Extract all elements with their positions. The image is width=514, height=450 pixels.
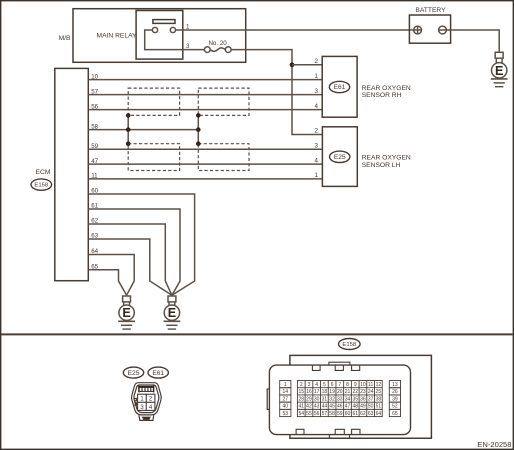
svg-text:33: 33 [337,396,343,402]
shield (upper right dashed) [198,88,249,115]
svg-text:E158: E158 [342,342,356,348]
ground battery [491,52,508,86]
svg-text:ECM: ECM [36,169,51,176]
svg-text:34: 34 [345,396,351,402]
svg-text:E: E [168,306,176,320]
svg-text:SENSOR LH: SENSOR LH [362,162,401,169]
connector label E61 (bottom view) [148,367,168,378]
rear oxygen sensor RH box [322,56,357,117]
shield (lower right dashed) [198,144,249,171]
junction dot at E61 pin2 branch [290,62,295,67]
fuse F20 symbol [204,47,231,53]
wire fuse to node [183,49,205,51]
ground right E [164,296,181,329]
svg-text:28: 28 [298,396,304,402]
svg-text:60: 60 [91,188,98,195]
svg-text:27: 27 [283,396,289,402]
svg-text:61: 61 [352,411,358,417]
svg-text:2: 2 [315,128,319,135]
E158 pin grid [280,381,401,417]
wire ECM pin 59 [88,148,322,150]
svg-text:14: 14 [283,389,289,395]
wire ECM pin 64 to ground [88,255,134,296]
svg-text:59: 59 [337,411,343,417]
svg-text:53: 53 [283,411,289,417]
svg-text:51: 51 [376,404,382,410]
wire ECM pin 11 [88,178,322,180]
svg-text:60: 60 [345,411,351,417]
svg-text:63: 63 [91,233,98,240]
svg-text:24: 24 [368,389,374,395]
svg-text:BATTERY: BATTERY [415,7,446,14]
connector label E158 (bottom view) [339,339,361,350]
svg-text:9: 9 [354,382,357,388]
shield (upper left dashed) [128,88,179,115]
svg-text:64: 64 [91,248,98,255]
svg-text:57: 57 [91,88,98,95]
connector top latch hatching [139,386,154,393]
shield drain wire x=198.3 [197,115,199,143]
E158 left notch [267,389,271,409]
relay internal wire to pin 3 [145,30,183,50]
svg-text:10: 10 [91,73,98,80]
svg-text:E: E [122,306,130,320]
battery - terminal [439,26,447,34]
svg-text:7: 7 [338,382,341,388]
svg-text:46: 46 [337,404,343,410]
wire ECM pin 61 to ground [88,209,180,295]
wire ECM pin 10 [88,79,322,81]
svg-text:32: 32 [329,396,335,402]
svg-text:20: 20 [337,389,343,395]
wire ECM pin 47 [88,163,322,165]
battery box [409,15,450,43]
svg-text:25: 25 [376,389,382,395]
svg-text:13: 13 [392,382,398,388]
svg-text:45: 45 [329,404,335,410]
connector E61 oval [329,81,349,92]
E158 connector body [269,365,410,435]
svg-text:4: 4 [315,382,318,388]
ECM box [55,68,89,280]
svg-text:50: 50 [368,404,374,410]
svg-text:8: 8 [346,382,349,388]
svg-text:17: 17 [314,389,320,395]
svg-text:35: 35 [352,396,358,402]
svg-text:11: 11 [91,173,98,180]
svg-text:31: 31 [322,396,328,402]
connector E25 oval [330,151,350,162]
svg-text:30: 30 [314,396,320,402]
E158 rear housing [290,355,432,438]
svg-text:4: 4 [315,103,319,110]
svg-text:52: 52 [392,404,398,410]
svg-text:16: 16 [306,389,312,395]
E158 bottom latch bracket [329,435,349,439]
svg-text:63: 63 [368,411,374,417]
ground left E [118,296,135,329]
svg-text:E: E [495,64,503,78]
main relay K1 box [136,11,183,60]
E158 top keying tabs [296,365,360,438]
svg-text:41: 41 [298,404,304,410]
svg-text:18: 18 [322,389,328,395]
svg-text:3: 3 [308,382,311,388]
E158 bottom keying tabs [296,429,304,434]
svg-text:62: 62 [91,218,98,225]
wire ECM pin 65 to ground [88,270,126,295]
svg-text:59: 59 [91,143,98,150]
shield junction dots [196,113,201,118]
svg-text:29: 29 [306,396,312,402]
svg-text:42: 42 [306,404,312,410]
svg-text:43: 43 [314,404,320,410]
svg-text:56: 56 [91,103,98,110]
oxygen sensor 4-pin connector face view [132,383,162,421]
svg-text:MAIN RELAY: MAIN RELAY [97,33,138,40]
svg-text:65: 65 [392,411,398,417]
svg-text:5: 5 [323,382,326,388]
battery + terminal [414,26,422,34]
svg-text:58: 58 [91,123,98,130]
wire fuse output, down to sensors [231,50,322,135]
svg-text:65: 65 [91,264,98,271]
relay contact left [152,27,157,32]
svg-text:22: 22 [352,389,358,395]
svg-text:E61: E61 [334,84,346,91]
E158 top latch bump [329,362,350,365]
svg-text:EN-20258: EN-20258 [477,440,511,449]
wire ECM pin 57 [88,94,322,96]
svg-text:12: 12 [376,382,382,388]
svg-text:26: 26 [392,389,398,395]
svg-text:54: 54 [298,411,304,417]
relay coil [153,20,175,24]
svg-text:57: 57 [322,411,328,417]
svg-text:1: 1 [284,382,287,388]
svg-text:55: 55 [306,411,312,417]
svg-text:47: 47 [345,404,351,410]
shield drain wire x=128.2 [127,115,129,143]
svg-text:61: 61 [91,203,98,210]
M/B box [73,9,246,63]
svg-text:SENSOR RH: SENSOR RH [362,92,402,99]
svg-text:REAR OXYGEN: REAR OXYGEN [362,85,411,92]
svg-text:REAR OXYGEN: REAR OXYGEN [362,155,411,162]
E158 pin numbers [283,382,398,417]
wire ECM pin 58 [88,129,198,131]
svg-text:E61: E61 [152,370,164,377]
svg-text:3: 3 [315,88,319,95]
ECM connector E158 oval label [31,179,52,190]
svg-text:E25: E25 [128,370,140,377]
svg-text:11: 11 [368,382,373,388]
svg-text:2: 2 [315,58,319,65]
svg-text:36: 36 [360,396,366,402]
svg-text:E158: E158 [34,183,48,189]
svg-text:4: 4 [315,157,319,164]
svg-text:6: 6 [331,382,334,388]
svg-text:23: 23 [360,389,366,395]
svg-text:49: 49 [360,404,366,410]
connector label E25 (bottom view) [123,367,143,378]
wire ECM pin 62 to ground [88,224,172,295]
svg-text:58: 58 [329,411,335,417]
svg-text:3: 3 [315,143,319,150]
svg-text:37: 37 [368,396,374,402]
relay contact right [170,27,175,32]
svg-text:47: 47 [91,158,98,165]
svg-text:2: 2 [300,382,303,388]
wire ECM pin 56 [88,109,322,111]
svg-text:38: 38 [376,396,382,402]
svg-text:64: 64 [376,411,382,417]
svg-text:E25: E25 [334,154,346,161]
svg-text:56: 56 [314,411,320,417]
svg-text:21: 21 [345,389,351,395]
svg-text:No. 20: No. 20 [208,40,227,47]
rear oxygen sensor LH box [322,127,357,187]
svg-text:40: 40 [283,404,289,410]
svg-text:19: 19 [329,389,335,395]
wire branch to E61 pin 2 [292,64,322,66]
wire relay pin1 to battery [176,29,414,31]
wire ECM pin 60 to ground [88,194,194,295]
svg-text:62: 62 [360,411,366,417]
wire battery to ground [446,30,499,52]
section separator line [1,333,512,335]
svg-text:39: 39 [392,396,398,402]
shield junction dots [126,113,131,118]
shield (lower left dashed) [128,144,179,171]
svg-text:1: 1 [315,73,319,80]
svg-text:15: 15 [298,389,304,395]
svg-text:48: 48 [352,404,358,410]
connector pin grid 1 2 / 3 4 [138,394,155,410]
svg-text:1: 1 [315,172,319,179]
svg-text:10: 10 [360,382,366,388]
svg-text:44: 44 [322,404,328,410]
svg-text:M/B: M/B [59,35,71,42]
wire ECM pin 63 to ground [88,239,172,295]
